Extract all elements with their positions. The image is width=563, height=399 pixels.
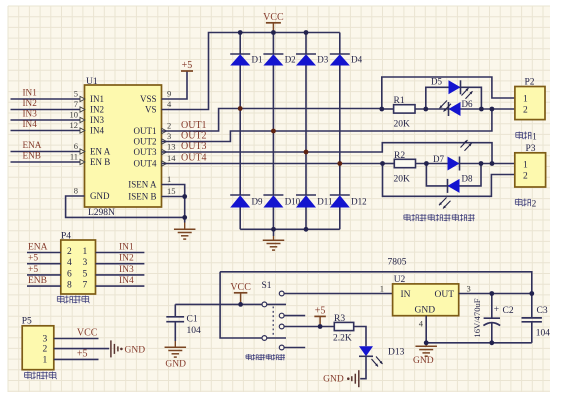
svg-text:GND: GND: [90, 191, 110, 201]
svg-text:8: 8: [67, 281, 72, 291]
svg-text:OUT2: OUT2: [181, 131, 207, 142]
svg-text:7: 7: [74, 99, 78, 109]
svg-text:D6: D6: [462, 99, 473, 109]
svg-text:GND: GND: [125, 346, 146, 356]
svg-text:D1: D1: [252, 55, 263, 65]
svg-text:D7: D7: [433, 154, 444, 164]
svg-text:ISEN B: ISEN B: [128, 192, 156, 202]
svg-text:D11: D11: [317, 197, 332, 207]
svg-text:1: 1: [83, 247, 88, 257]
svg-text:GND: GND: [165, 360, 186, 370]
svg-text:16V/470uF: 16V/470uF: [472, 298, 482, 337]
svg-text:P3: P3: [526, 144, 536, 154]
svg-text:3: 3: [43, 335, 48, 345]
svg-text:1: 1: [532, 131, 537, 141]
svg-text:3: 3: [167, 131, 171, 141]
svg-text:6: 6: [67, 269, 72, 279]
svg-text:13: 13: [167, 142, 176, 152]
svg-text:VCC: VCC: [77, 328, 98, 339]
svg-text:IN1: IN1: [90, 94, 104, 104]
svg-text:D12: D12: [351, 197, 367, 207]
svg-text:IN1: IN1: [23, 88, 38, 98]
svg-text:4: 4: [67, 258, 72, 268]
svg-text:IN: IN: [401, 290, 411, 300]
svg-text:IN2: IN2: [23, 98, 38, 108]
svg-text:IN2: IN2: [119, 254, 134, 264]
svg-text:C3: C3: [537, 306, 548, 316]
svg-text:OUT3: OUT3: [181, 141, 207, 152]
svg-text:EN B: EN B: [90, 157, 110, 167]
svg-text:IN4: IN4: [90, 126, 104, 136]
svg-text:VSS: VSS: [140, 94, 157, 104]
svg-text:+: +: [494, 305, 499, 315]
svg-text:S1: S1: [262, 281, 272, 291]
svg-text:6: 6: [74, 141, 78, 151]
svg-text:+5: +5: [77, 349, 88, 360]
svg-text:2: 2: [67, 247, 72, 257]
svg-text:IN3: IN3: [90, 115, 104, 125]
svg-text:D3: D3: [317, 55, 328, 65]
svg-text:9: 9: [167, 89, 171, 99]
svg-text:7: 7: [83, 281, 88, 291]
svg-text:R3: R3: [334, 314, 345, 324]
svg-text:IN2: IN2: [90, 105, 104, 115]
svg-text:GND: GND: [323, 375, 344, 385]
svg-text:7805: 7805: [388, 258, 407, 268]
svg-text:5: 5: [83, 269, 88, 279]
svg-text:C1: C1: [187, 315, 198, 325]
svg-text:P4: P4: [61, 232, 71, 242]
svg-text:3: 3: [83, 258, 88, 268]
svg-text:IN4: IN4: [119, 276, 134, 286]
svg-text:EN A: EN A: [90, 147, 111, 157]
svg-text:OUT4: OUT4: [134, 159, 157, 169]
svg-text:IN1: IN1: [119, 243, 134, 253]
svg-text:ISEN A: ISEN A: [128, 180, 157, 190]
svg-text:OUT2: OUT2: [134, 137, 157, 147]
svg-text:OUT4: OUT4: [181, 153, 207, 164]
svg-text:VCC: VCC: [230, 282, 251, 293]
svg-text:OUT1: OUT1: [181, 120, 207, 131]
svg-text:+5: +5: [28, 265, 38, 275]
svg-text:VCC: VCC: [263, 12, 284, 23]
svg-text:20K: 20K: [394, 120, 411, 130]
svg-text:R2: R2: [394, 151, 405, 161]
svg-text:14: 14: [167, 153, 176, 163]
svg-text:VS: VS: [145, 105, 157, 115]
svg-text:D10: D10: [285, 197, 301, 207]
svg-text:2: 2: [43, 345, 48, 355]
svg-text:D4: D4: [351, 55, 362, 65]
svg-text:D5: D5: [431, 77, 442, 87]
svg-text:OUT3: OUT3: [134, 147, 157, 157]
svg-text:L298N: L298N: [88, 208, 115, 218]
svg-text:D13: D13: [388, 348, 405, 358]
svg-text:1: 1: [43, 355, 48, 365]
svg-text:R1: R1: [394, 96, 405, 106]
svg-text:C2: C2: [503, 306, 514, 316]
svg-text:1: 1: [380, 284, 384, 294]
svg-text:ENB: ENB: [28, 276, 47, 286]
svg-text:IN3: IN3: [119, 265, 134, 275]
svg-text:8: 8: [74, 186, 78, 196]
svg-text:D9: D9: [252, 197, 263, 207]
svg-text:D2: D2: [285, 55, 296, 65]
svg-text:ENB: ENB: [23, 151, 41, 161]
svg-text:GND: GND: [413, 356, 434, 366]
svg-text:2: 2: [523, 106, 528, 116]
svg-text:ENA: ENA: [28, 243, 48, 253]
svg-text:+5: +5: [315, 305, 326, 316]
svg-text:104: 104: [536, 329, 551, 339]
svg-text:1: 1: [167, 174, 171, 184]
svg-text:U1: U1: [86, 77, 98, 87]
svg-text:2.2K: 2.2K: [333, 334, 352, 344]
svg-text:+5: +5: [28, 254, 38, 264]
svg-text:OUT1: OUT1: [134, 126, 157, 136]
svg-text:11: 11: [70, 152, 78, 162]
svg-text:OUT: OUT: [435, 290, 455, 300]
svg-text:ENA: ENA: [23, 140, 42, 150]
svg-text:+5: +5: [182, 60, 193, 71]
svg-text:IN4: IN4: [23, 119, 38, 129]
svg-text:12: 12: [70, 120, 79, 130]
svg-text:104: 104: [187, 326, 202, 336]
svg-text:D8: D8: [462, 174, 473, 184]
svg-text:3: 3: [467, 284, 471, 294]
svg-text:1: 1: [523, 95, 528, 105]
svg-text:P2: P2: [525, 78, 535, 88]
svg-text:1: 1: [523, 161, 528, 171]
svg-text:2: 2: [532, 198, 537, 208]
svg-text:2: 2: [523, 172, 528, 182]
svg-text:P5: P5: [22, 317, 32, 327]
svg-text:15: 15: [167, 186, 176, 196]
svg-text:2: 2: [167, 121, 171, 131]
svg-text:GND: GND: [415, 306, 436, 316]
svg-text:10: 10: [70, 110, 79, 120]
svg-text:IN3: IN3: [23, 109, 38, 119]
svg-text:5: 5: [74, 89, 78, 99]
svg-text:20K: 20K: [394, 175, 411, 185]
